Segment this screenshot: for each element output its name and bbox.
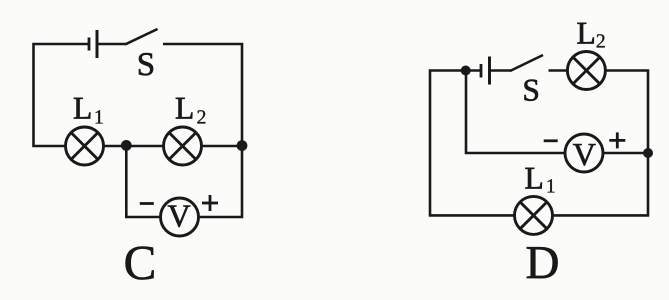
wire: L2 to right node — [202, 145, 244, 148]
switch S (C) blade — [125, 29, 158, 45]
wire: battery to switch pivot — [490, 69, 512, 72]
lamp L1 (C) — [66, 127, 104, 165]
battery B1 long plate (positive) — [96, 30, 99, 58]
node: junction dot right of L2 — [237, 140, 248, 151]
svg-text:L1: L1 — [73, 90, 104, 128]
svg-text:L2: L2 — [175, 90, 207, 128]
svg-text:V: V — [573, 136, 596, 172]
node: junction dot on D top wire — [461, 66, 471, 76]
battery B1 short plate (negative) — [88, 38, 91, 51]
wire: C top-left + left vertical + lamp-row left stub — [34, 44, 90, 146]
battery B2 short plate (negative) — [480, 64, 483, 78]
voltmeter V (D) — [565, 134, 603, 172]
svg-text:C: C — [124, 235, 157, 290]
wire: voltmeter branch from top dot, down then right — [466, 71, 565, 154]
wire: switch to lamp L2 — [549, 69, 568, 72]
plus sign (C voltmeter) — [202, 195, 218, 211]
voltmeter V (C) — [161, 198, 199, 236]
svg-text:S: S — [137, 47, 155, 83]
switch S (D) blade — [510, 55, 543, 71]
wire: battery to switch pivot — [97, 43, 126, 46]
lamp L2 (D) — [567, 52, 605, 90]
svg-text:L2: L2 — [577, 16, 606, 53]
svg-text:V: V — [167, 198, 190, 234]
wire: between L1 and L2 — [104, 145, 164, 148]
battery B2 long plate (positive) — [488, 57, 491, 85]
lamp L2 (C) — [164, 127, 202, 165]
svg-text:D: D — [526, 237, 560, 289]
node: junction dot on D right vertical — [643, 148, 653, 158]
wire: switch to top-right corner + right vertical + volt-row right stub — [163, 44, 242, 217]
node: junction dot between L1 and L2 — [121, 140, 132, 151]
wire: L2 to top-right corner + right vertical + bottom-right segment — [553, 71, 649, 216]
plus sign (D voltmeter) — [609, 132, 625, 148]
svg-text:S: S — [522, 72, 540, 107]
minus sign (D voltmeter) — [544, 139, 558, 142]
wire: D top-left + left vertical + bottom-left segment — [430, 71, 515, 216]
lamp L1 (D) — [515, 196, 553, 234]
wire: voltmeter to right vertical — [603, 152, 648, 155]
minus sign (C voltmeter) — [140, 202, 154, 205]
svg-text:L1: L1 — [525, 160, 556, 197]
wire: voltmeter branch left vertical + bottom stub — [126, 146, 160, 217]
